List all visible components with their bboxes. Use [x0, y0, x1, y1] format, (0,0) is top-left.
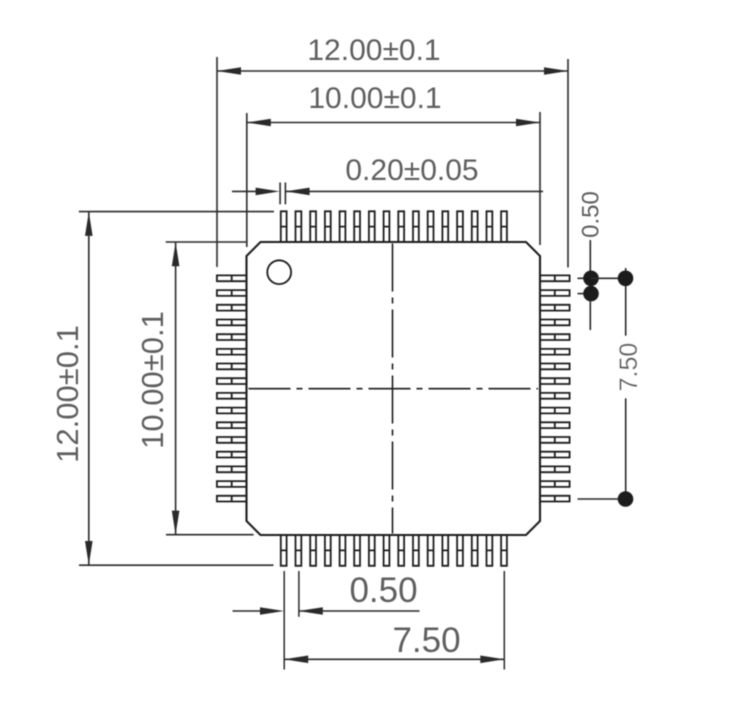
annotation 0.50 (pin pitch, right side): [578, 191, 605, 330]
dimension 12.00±0.1 (top horizontal): [217, 34, 568, 268]
dimension 0.20±0.05 (pin width): [232, 154, 543, 204]
svg-text:7.50: 7.50: [392, 621, 460, 660]
svg-text:7.50: 7.50: [615, 343, 643, 392]
package body outline: [247, 242, 541, 535]
left pin row (16 pins): [217, 275, 247, 501]
svg-text:0.50: 0.50: [349, 571, 417, 610]
right pin row (16 pins): [540, 275, 570, 501]
dimension 7.50 (pin span, bottom): [284, 571, 504, 670]
svg-text:12.00±0.1: 12.00±0.1: [307, 34, 440, 67]
dimension 12.00±0.1 (left vertical): [50, 212, 274, 566]
svg-text:0.50: 0.50: [578, 191, 605, 238]
annotation 7.50 (pin span, right side): [578, 268, 644, 507]
top pin row (16 pins): [281, 211, 507, 242]
svg-text:10.00±0.1: 10.00±0.1: [308, 82, 441, 115]
pin 1 indicator circle: [267, 260, 291, 284]
bottom pin row (16 pins): [281, 535, 507, 566]
svg-text:0.20±0.05: 0.20±0.05: [345, 154, 478, 187]
vertical centerline: [392, 244, 394, 534]
svg-text:12.00±0.1: 12.00±0.1: [50, 325, 85, 463]
dimension 10.00±0.1 (upper horizontal): [247, 82, 540, 247]
svg-text:10.00±0.1: 10.00±0.1: [135, 311, 170, 449]
dimension 10.00±0.1 (inner left vertical): [135, 242, 254, 535]
dimension 0.50 (pin pitch, bottom): [233, 571, 420, 670]
horizontal centerline: [249, 388, 539, 390]
